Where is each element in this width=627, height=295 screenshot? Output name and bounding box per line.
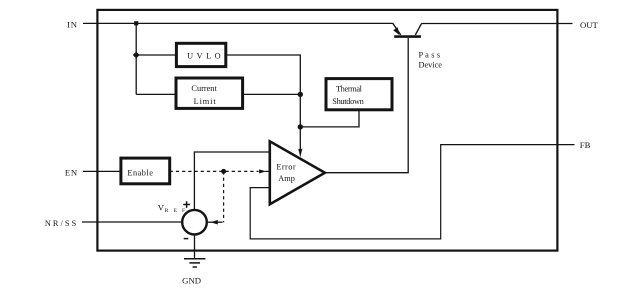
wire error amp output to pass device base <box>325 38 408 173</box>
arrow enable into error amp <box>265 170 270 172</box>
svg-text:IN: IN <box>67 20 78 30</box>
block Current Limit <box>176 78 243 108</box>
transistor collector wire <box>415 24 421 35</box>
node junction UVLO branch <box>133 52 140 59</box>
wire OUT rail <box>421 23 572 25</box>
minus sign <box>184 238 189 240</box>
node junction thermal-shutdown <box>298 124 303 129</box>
svg-text:Amp: Amp <box>278 174 295 183</box>
wire IN to UVLO/Current Limit branch <box>135 23 137 94</box>
svg-text:Thermal: Thermal <box>336 84 363 93</box>
wire UVLO output <box>226 55 300 151</box>
wire EN <box>83 170 121 172</box>
wire to UVLO input <box>136 54 176 56</box>
transistor emitter wire <box>393 23 401 35</box>
svg-text:Shutdown: Shutdown <box>332 97 364 106</box>
arrow into error amp top <box>298 149 302 158</box>
wire FB feedback path <box>250 145 574 239</box>
svg-text:E: E <box>174 208 178 214</box>
node junction enable dashed <box>221 169 226 174</box>
op-amp Error Amp <box>270 141 325 204</box>
svg-text:Current: Current <box>191 84 217 93</box>
block Enable <box>121 158 170 184</box>
plus sign <box>183 201 190 208</box>
svg-text:OUT: OUT <box>580 20 599 30</box>
node junction on IN rail <box>134 21 138 25</box>
wire dashed enable to vref <box>223 171 225 222</box>
svg-text:P a s s: P a s s <box>419 50 441 59</box>
svg-text:R: R <box>165 208 169 214</box>
svg-text:FB: FB <box>580 140 591 150</box>
svg-text:Enable: Enable <box>127 169 153 178</box>
wire vref to error amp + input <box>194 152 269 210</box>
node junction current-limit/UVLO <box>298 92 303 97</box>
wire to Current Limit input <box>136 93 176 95</box>
voltage source VREF circle <box>182 210 207 235</box>
transistor Q1 pass device base bar <box>394 35 421 38</box>
arrow emitter (PNP) <box>393 27 399 35</box>
svg-text:GND: GND <box>182 275 201 285</box>
svg-text:N R / S S: N R / S S <box>45 219 77 228</box>
wire NR/SS to vref <box>82 221 182 223</box>
svg-text:Error: Error <box>276 162 296 171</box>
svg-text:EN: EN <box>65 168 78 178</box>
ground symbol <box>184 258 205 260</box>
block UVLO <box>176 43 225 66</box>
wire vref to ground <box>194 235 196 259</box>
wire Current Limit output <box>243 93 301 95</box>
wire dashed Enable to error amp <box>170 170 259 172</box>
svg-text:U V L O: U V L O <box>187 51 221 60</box>
block Thermal Shutdown <box>326 79 392 110</box>
wire IN rail <box>83 22 393 24</box>
wire Thermal Shutdown output <box>300 110 359 127</box>
outer IC boundary box <box>97 10 557 251</box>
svg-text:Limit: Limit <box>194 97 217 106</box>
arrow enable into vref <box>211 220 218 225</box>
svg-text:Device: Device <box>419 60 443 69</box>
